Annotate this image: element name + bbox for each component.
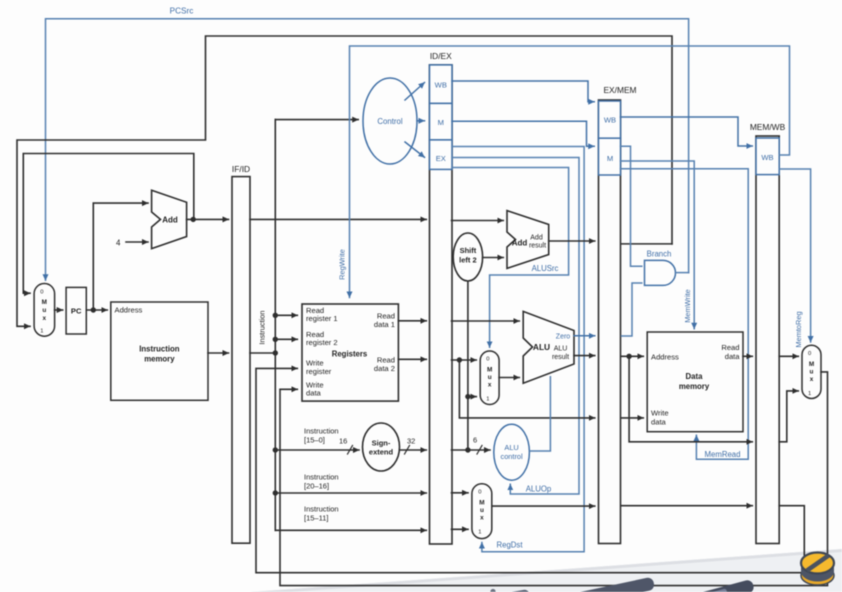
register ID/EX (430, 51, 453, 544)
wire instruction to read register 2 (275, 338, 297, 340)
wire ID/EX M to EX/MEM M (452, 121, 594, 146)
svg-text:ID/EX: ID/EX (430, 51, 452, 61)
wire write register number feedback (256, 368, 804, 572)
wire ALU result down to MEM/WB (629, 356, 752, 442)
node MemRead label (705, 450, 741, 459)
instruction memory (111, 302, 208, 400)
svg-text:ALU: ALU (504, 443, 518, 452)
wire Control to ID/EX EX box (405, 142, 425, 157)
wire ALU result EX/MEM to address (622, 355, 644, 357)
wire RegWrite feedback (350, 46, 790, 298)
svg-text:PC: PC (71, 307, 82, 316)
svg-text:Branch: Branch (647, 250, 672, 259)
wire ALUOp control (452, 158, 579, 495)
svg-text:Add: Add (530, 235, 543, 242)
wire immediate ID/EX to ALU control (452, 449, 491, 451)
node 6 bit slash (473, 436, 482, 455)
svg-text:EX/MEM: EX/MEM (603, 85, 636, 95)
svg-text:4: 4 (116, 239, 121, 248)
svg-text:Registers: Registers (332, 350, 368, 359)
svg-text:1: 1 (808, 391, 811, 397)
photo small object (490, 589, 495, 592)
wire Control to ID/EX WB box (405, 83, 425, 101)
wire PC to Add (93, 203, 148, 310)
wire instruction bus out of IF/ID (250, 352, 275, 354)
adder Add branch target (507, 211, 549, 269)
wire 4 to Add (126, 241, 148, 243)
svg-text:EX: EX (436, 154, 446, 163)
wire read data 1 to ID/EX (398, 320, 426, 322)
node 16 bit slash (339, 437, 353, 455)
svg-text:Sign-: Sign- (372, 439, 391, 448)
wire read data 2 to ALUSrc mux (452, 359, 477, 361)
svg-text:Instruction: Instruction (258, 310, 267, 344)
wire MemWrite to data memory (621, 161, 695, 329)
svg-text:data: data (725, 352, 741, 361)
wire EX/MEM WB to MEM/WB WB (621, 117, 753, 146)
wire branch target address EX/MEM to PC mux input 1 (17, 36, 672, 326)
svg-text:0: 0 (40, 290, 43, 296)
wire RegDst mux output to EX/MEM (492, 505, 595, 507)
svg-text:ALU: ALU (554, 346, 568, 353)
svg-text:extend: extend (369, 448, 394, 457)
node constant 4 (116, 239, 121, 248)
wire branch Add result to EX/MEM (549, 240, 595, 242)
svg-text:0: 0 (486, 357, 489, 363)
svg-text:register: register (306, 367, 332, 376)
svg-text:x: x (480, 515, 484, 522)
register block Registers (302, 304, 398, 401)
svg-text:ALUOp: ALUOp (526, 485, 552, 494)
gate AND branch (645, 260, 676, 285)
svg-text:u: u (480, 507, 484, 514)
node junction ALU result MEM (626, 354, 631, 359)
mux M2 ALUSrc (480, 351, 499, 405)
svg-text:x: x (43, 315, 47, 322)
svg-text:Write: Write (651, 409, 669, 418)
oval ALU control (494, 424, 530, 480)
svg-text:[15–11]: [15–11] (304, 514, 328, 523)
node ALUOp label (526, 485, 552, 494)
wire Zero to EX/MEM (574, 335, 595, 337)
wire ALU result to EX/MEM (574, 355, 595, 357)
wire instruction to Control (275, 119, 358, 121)
node PCSrc label (170, 7, 194, 16)
wire PC+4 IF/ID to ID/EX (250, 218, 426, 220)
photo tape roll (801, 553, 834, 586)
mux M4 MemtoReg (802, 345, 821, 398)
svg-text:data 1: data 1 (374, 320, 395, 329)
wire branch target exits EX/MEM right edge (622, 243, 673, 245)
svg-text:u: u (810, 368, 814, 375)
svg-text:Read: Read (721, 343, 739, 352)
svg-text:MEM/WB: MEM/WB (750, 122, 786, 132)
control box ID/EX M (430, 103, 453, 139)
photo desk wedge bottom (250, 549, 842, 592)
svg-text:WB: WB (761, 153, 773, 162)
svg-text:RegWrite: RegWrite (338, 249, 347, 280)
wire PC to instruction memory address (86, 309, 107, 311)
svg-text:Data: Data (686, 372, 704, 381)
svg-text:Instruction: Instruction (304, 473, 339, 482)
oval sign-extend (363, 423, 400, 471)
node junction PC output (91, 307, 96, 312)
node Instruction 15-11 label (304, 505, 339, 523)
svg-text:register 1: register 1 (306, 314, 338, 323)
adder Add (PC+4) (152, 190, 187, 248)
svg-text:Instruction: Instruction (139, 345, 180, 354)
svg-text:memory: memory (144, 355, 175, 364)
wire AND output to PCSrc (676, 272, 689, 274)
svg-text:M: M (479, 500, 484, 507)
node junction read data 2 (457, 357, 462, 362)
svg-text:1: 1 (486, 397, 489, 403)
wire Zero EX/MEM to AND gate (622, 283, 642, 336)
wire mux to PC (55, 309, 63, 311)
node junction PC+4 (191, 217, 196, 222)
node ALUSrc label (532, 264, 559, 273)
wire instruction to read register 1 (275, 314, 297, 316)
wire read data MEM/WB to final mux (779, 355, 798, 357)
wire shift left 2 to branch Add (483, 257, 504, 259)
oval Control (363, 78, 417, 164)
wire read data 2 to ID/EX (398, 358, 426, 360)
svg-text:Add: Add (162, 216, 178, 225)
wire RegDst control (452, 147, 584, 552)
wire ID/EX WB to EX/MEM WB (452, 81, 594, 102)
svg-text:ALUSrc: ALUSrc (532, 264, 559, 273)
wire MemtoReg to final mux (779, 169, 810, 342)
wire write back data feedback (280, 372, 828, 586)
svg-text:PCSrc: PCSrc (170, 7, 194, 16)
svg-text:0: 0 (478, 490, 481, 496)
photo pen 3 (458, 589, 531, 592)
svg-text:u: u (488, 374, 492, 381)
control box EX/MEM WB (599, 101, 621, 138)
wire write register number EX/MEM to MEM/WB (622, 505, 753, 507)
svg-text:M: M (809, 361, 814, 368)
svg-text:MemtoReg: MemtoReg (794, 311, 803, 347)
svg-text:MemWrite: MemWrite (683, 289, 692, 323)
svg-text:u: u (42, 307, 46, 314)
svg-text:ALU: ALU (533, 342, 550, 352)
wire read data to MEM/WB (743, 355, 752, 357)
svg-text:x: x (810, 376, 814, 383)
control box ID/EX EX (430, 140, 453, 170)
svg-text:Control: Control (377, 117, 402, 126)
svg-text:Address: Address (651, 353, 679, 362)
wire write data EX/MEM to data memory (622, 417, 644, 419)
svg-text:result: result (552, 354, 569, 361)
wire Control to ID/EX M box (417, 120, 425, 122)
oval shift left 2 (453, 233, 482, 450)
svg-text:Instruction: Instruction (304, 505, 339, 514)
wire PC+4 feedback to PC mux input 0 (23, 154, 194, 294)
memory Data memory (647, 332, 743, 432)
node MemWrite label (683, 289, 692, 323)
wire MemRead around data memory (621, 169, 749, 460)
wire instruction 15-11 to ID/EX (275, 529, 426, 531)
wire sign extend to ID/EX (400, 449, 427, 451)
control box MEM/WB WB (756, 138, 779, 175)
wire Branch control to AND gate (621, 146, 642, 266)
node Instruction 20-16 label (304, 473, 339, 491)
svg-text:Zero: Zero (556, 334, 571, 341)
wire instruction 20-16 EX side to RegDst mux (452, 492, 469, 494)
svg-text:control: control (501, 452, 524, 461)
node RegDst label (497, 541, 524, 550)
wire instruction 20-16 to ID/EX (275, 492, 426, 494)
svg-text:M: M (607, 154, 613, 163)
svg-text:RegDst: RegDst (497, 541, 524, 550)
control box EX/MEM M (599, 138, 621, 175)
wire immediate to mux input 1 (468, 396, 476, 398)
svg-text:M: M (487, 367, 492, 374)
svg-text:6: 6 (473, 436, 477, 445)
wire instruction memory to IF/ID (208, 352, 229, 354)
photo pen 2 (645, 579, 755, 592)
wire ALUSrc mux to ALU (499, 377, 519, 379)
mux M3 RegDst (472, 484, 492, 539)
wire ALU control to ALU (529, 377, 550, 451)
svg-text:1: 1 (478, 530, 481, 536)
svg-text:IF/ID: IF/ID (232, 164, 250, 174)
register MEM/WB (750, 122, 786, 544)
svg-text:M: M (42, 299, 47, 306)
wire PCSrc from branch AND gate to PC mux select (46, 19, 689, 280)
wire ALU result MEM/WB to final mux (779, 391, 798, 442)
svg-text:data 2: data 2 (374, 364, 395, 373)
svg-text:32: 32 (407, 437, 415, 446)
node Branch label (647, 250, 672, 259)
svg-text:Address: Address (115, 306, 143, 315)
register EX/MEM (599, 85, 637, 544)
svg-text:[20–16]: [20–16] (304, 482, 329, 491)
svg-text:result: result (529, 243, 546, 250)
svg-text:register 2: register 2 (306, 338, 338, 347)
node Instruction label (258, 310, 267, 344)
wire instruction 15-0 to sign extend (275, 449, 359, 451)
alu ALU main (523, 311, 574, 383)
node 32 bit slash (405, 437, 416, 455)
svg-text:x: x (488, 382, 492, 389)
svg-text:MemRead: MemRead (705, 450, 741, 459)
svg-text:memory: memory (679, 382, 710, 391)
wire Add output to IF/ID (187, 218, 229, 220)
wire ALUSrc control (452, 168, 569, 348)
wire read data 2 down to write data EX/MEM (459, 360, 594, 418)
svg-text:M: M (438, 118, 444, 127)
svg-text:left 2: left 2 (459, 256, 477, 265)
control box ID/EX WB (430, 65, 453, 104)
register IF/ID (232, 164, 250, 543)
svg-text:data: data (306, 389, 322, 398)
register PC (66, 287, 86, 334)
svg-text:16: 16 (339, 437, 347, 446)
svg-text:[15–0]: [15–0] (304, 436, 325, 445)
node junction dots instruction bus (273, 313, 278, 496)
wire read data 1 to ALU (452, 320, 520, 322)
svg-text:Shift: Shift (460, 246, 477, 255)
node RegWrite label (338, 249, 347, 280)
svg-text:WB: WB (604, 116, 616, 125)
svg-text:0: 0 (808, 351, 811, 357)
svg-text:data: data (651, 417, 667, 426)
node Instruction 15-0 label (304, 427, 339, 445)
svg-text:Instruction: Instruction (304, 427, 339, 436)
mux M1 PC source (34, 284, 55, 337)
svg-text:1: 1 (40, 329, 43, 335)
wire instruction 15-11 EX side to RegDst mux (452, 528, 469, 530)
svg-text:WB: WB (435, 81, 447, 90)
svg-text:Add: Add (512, 239, 528, 248)
wire PC+4 ID/EX to branch Add (452, 220, 504, 222)
node MemtoReg label (794, 311, 803, 347)
node junction immediate (465, 394, 470, 453)
photo pen 1 (530, 577, 655, 592)
wire instruction bus vertical (274, 120, 276, 531)
